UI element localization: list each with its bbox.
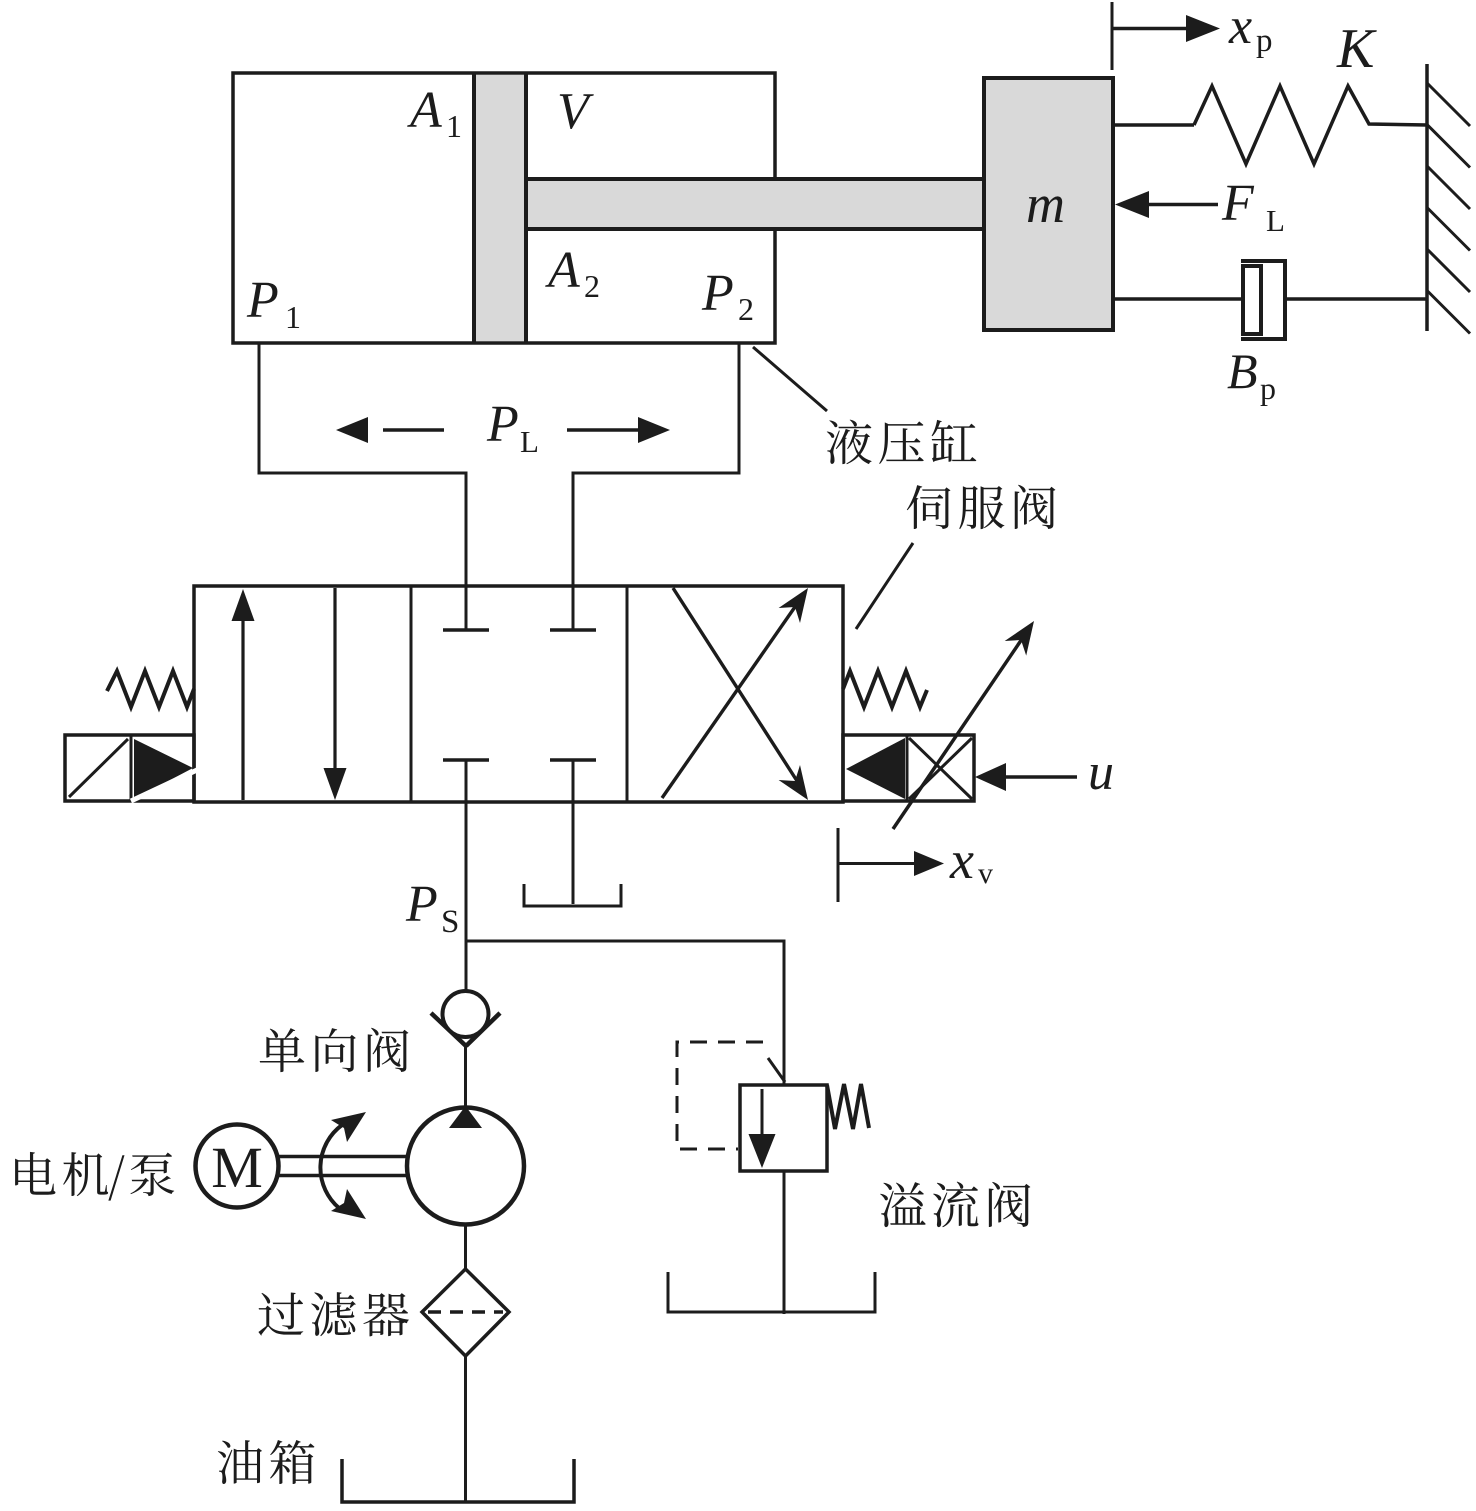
- svg-text:S: S: [441, 904, 459, 940]
- svg-text:F: F: [1221, 175, 1255, 232]
- svg-text:m: m: [1026, 174, 1065, 234]
- svg-text:2: 2: [584, 268, 600, 304]
- svg-text:v: v: [978, 857, 993, 890]
- svg-text:L: L: [1266, 203, 1285, 238]
- svg-text:P: P: [405, 876, 438, 933]
- svg-text:B: B: [1227, 343, 1258, 399]
- svg-text:L: L: [520, 424, 539, 459]
- svg-text:p: p: [1256, 23, 1273, 59]
- svg-text:P: P: [246, 272, 279, 329]
- svg-text:2: 2: [738, 291, 754, 327]
- svg-text:x: x: [949, 830, 974, 890]
- svg-text:A: A: [407, 82, 442, 139]
- svg-text:u: u: [1088, 744, 1114, 801]
- svg-text:P: P: [486, 396, 519, 453]
- svg-text:V: V: [557, 83, 594, 140]
- svg-text:A: A: [545, 242, 580, 299]
- svg-text:p: p: [1260, 370, 1276, 406]
- svg-text:x: x: [1228, 0, 1252, 55]
- svg-text:M: M: [211, 1135, 263, 1200]
- svg-text:K: K: [1336, 18, 1377, 80]
- svg-text:1: 1: [446, 108, 462, 144]
- svg-text:P: P: [701, 265, 734, 322]
- svg-text:1: 1: [285, 299, 301, 335]
